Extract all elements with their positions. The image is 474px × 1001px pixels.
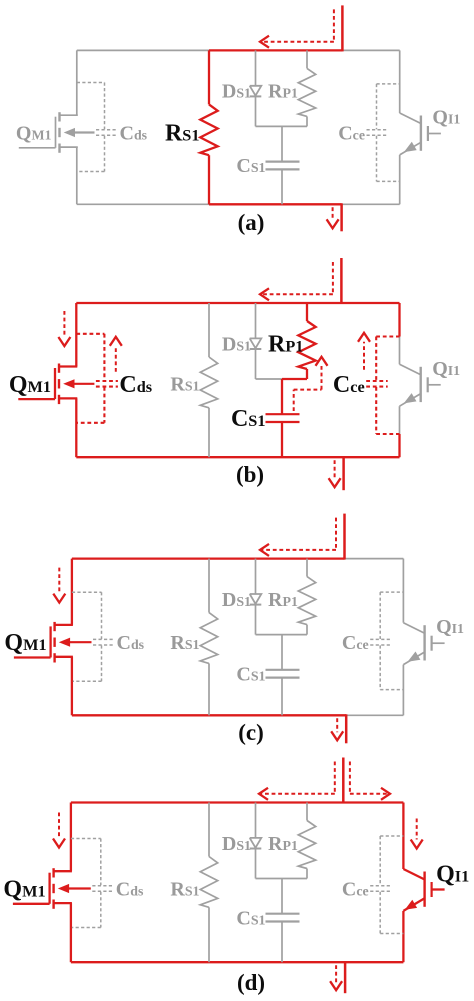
wire left rail upper b — [75, 303, 77, 367]
wire left rail upper a — [76, 50, 78, 115]
wire entry b — [340, 258, 343, 304]
resistor RS1 a — [200, 50, 217, 204]
wire left rail lower c — [71, 657, 73, 716]
resistor RS1 b — [200, 303, 217, 457]
arrow drain current c — [53, 568, 65, 603]
arrow exit d — [330, 965, 342, 990]
diode DS1 d — [250, 803, 262, 879]
diode DS1 a — [250, 50, 262, 126]
capacitor Cce b — [366, 337, 399, 435]
arrow collector current d — [411, 819, 423, 849]
arrow entry a — [260, 9, 334, 47]
capacitor CS1 a — [266, 126, 300, 204]
svg-text:(b): (b) — [236, 462, 264, 487]
capacitor CS1 b — [266, 379, 300, 457]
diode DS1 b — [250, 303, 262, 379]
arrow entry b — [260, 262, 333, 300]
arrow entry right d — [350, 762, 390, 800]
arrow QI1 emitter b — [404, 393, 417, 403]
arrow entry d — [259, 762, 335, 800]
transistor QI1 b — [400, 364, 441, 406]
arrow exit b — [329, 460, 341, 487]
wire right rail c — [402, 559, 404, 623]
resistor RS1 c — [200, 559, 217, 716]
wire top rail c — [72, 557, 345, 559]
svg-text:(c): (c) — [238, 720, 264, 745]
resistor RP1 c — [298, 559, 315, 635]
arrow exit a — [327, 207, 339, 228]
wire left rail upper d — [70, 803, 72, 872]
arrow Cds to QM1 body d — [68, 887, 91, 889]
wire right rail a — [399, 50, 401, 113]
wire entry c — [343, 514, 346, 560]
transistor QM1 b — [18, 364, 77, 405]
resistor RP1 a — [298, 50, 315, 126]
diode DS1 c — [250, 559, 262, 635]
transistor QI1 c — [403, 623, 444, 665]
arrow Cds current b — [110, 337, 122, 372]
wire left rail lower b — [75, 398, 77, 457]
wire entry d — [342, 758, 345, 804]
arrow Cds to QM1 body c — [69, 641, 91, 643]
transistor QM1 d — [13, 868, 72, 909]
wire bottom rail b — [76, 456, 399, 458]
capacitor Cce d — [370, 836, 403, 934]
svg-text:(d): (d) — [237, 970, 265, 995]
wire bottom rail c — [72, 714, 346, 716]
resistor RP1 b — [298, 303, 315, 379]
wire snubber connector a — [256, 125, 308, 127]
arrow exit c — [331, 718, 343, 740]
wire right rail b — [398, 303, 400, 337]
wire top rail a — [77, 49, 209, 51]
arrow QI1 emitter c — [408, 652, 421, 662]
wire left rail lower d — [70, 903, 72, 962]
arrow drain current b — [58, 311, 70, 346]
wire left rail upper c — [71, 559, 73, 625]
arrow Cds to QM1 body a — [74, 131, 95, 133]
capacitor Cce c — [370, 592, 403, 690]
capacitor Cce a — [367, 84, 400, 181]
wire right rail d — [402, 803, 404, 870]
transistor QI1 d — [403, 869, 444, 911]
transistor QM1 c — [14, 622, 73, 663]
capacitor CS1 c — [266, 635, 300, 716]
wire snubber connector d — [256, 878, 308, 880]
resistor RP1 d — [298, 803, 315, 879]
wire snubber connector c — [256, 634, 308, 636]
wire exit a — [340, 203, 343, 231]
wire top rail b — [76, 302, 399, 304]
transistor QI1 a — [400, 113, 441, 155]
wire bottom rail a — [77, 203, 209, 205]
capacitor Cds b — [76, 334, 118, 423]
arrow Cds to QM1 body b — [74, 383, 95, 385]
arrow entry c — [260, 518, 336, 556]
wire exit d — [344, 961, 347, 993]
resistor RS1 d — [200, 803, 217, 963]
wire exit c — [345, 714, 348, 743]
arrow QI1 emitter a — [404, 142, 417, 152]
wire exit b — [342, 456, 345, 490]
arrow QI1 emitter d — [405, 900, 417, 910]
capacitor CS1 d — [266, 879, 300, 963]
wire entry a — [341, 5, 344, 51]
wire top rail d — [71, 801, 404, 803]
capacitor Cds c — [72, 592, 115, 681]
transistor QM1 a — [19, 112, 78, 153]
svg-text:(a): (a) — [238, 210, 265, 235]
arrow Cce current b — [358, 333, 370, 370]
capacitor Cds a — [77, 83, 118, 172]
capacitor Cds d — [71, 839, 114, 928]
wire bottom rail d — [71, 961, 404, 963]
arrow drain current d — [53, 813, 65, 848]
wire left rail lower a — [76, 147, 78, 204]
wire snubber connector b — [256, 378, 283, 380]
arrow RP1 current b — [294, 357, 328, 411]
